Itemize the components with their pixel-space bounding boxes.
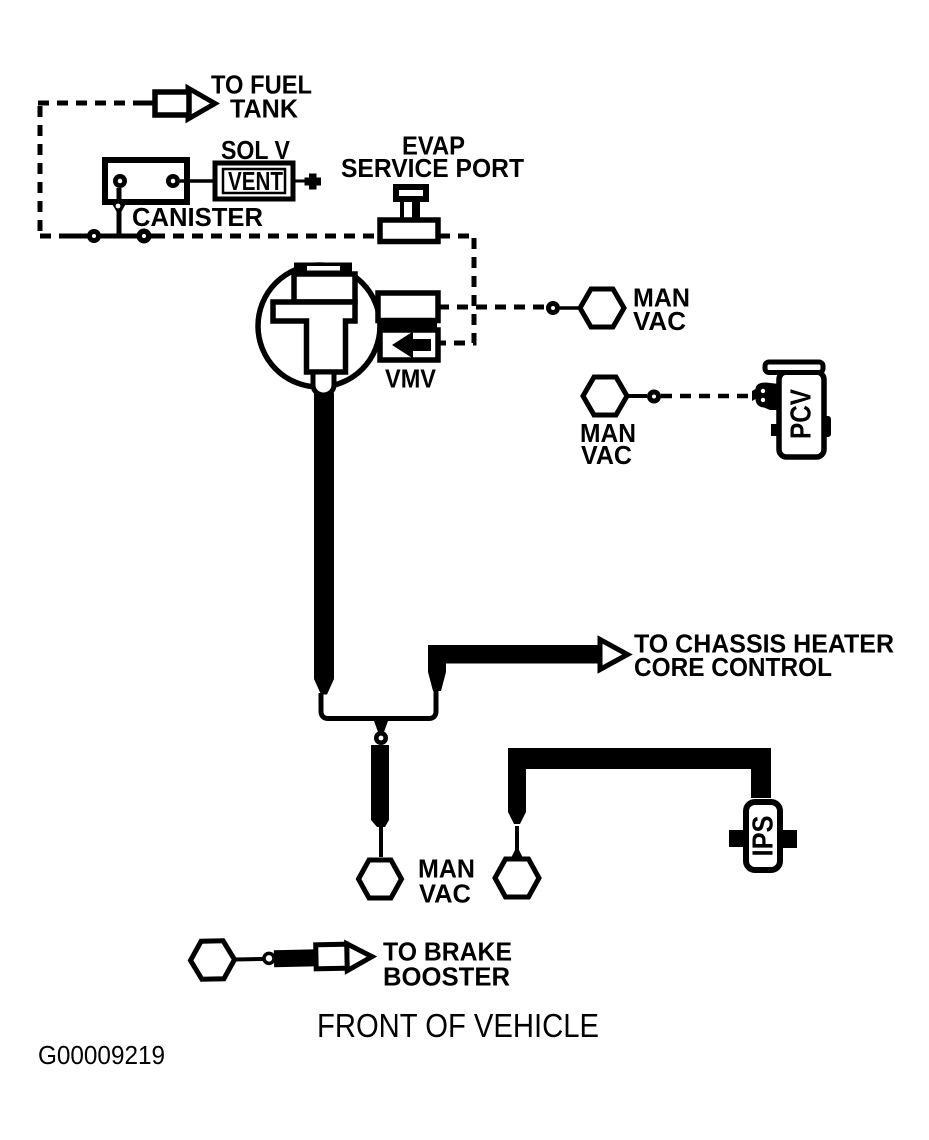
svg-text:SERVICE PORT: SERVICE PORT (341, 155, 524, 183)
label MAN VAC 2 (580, 420, 636, 470)
svg-text:BOOSTER: BOOSTER (383, 964, 510, 992)
hose thick short to lower MAN VAC (371, 745, 389, 857)
wire left vertical dashed vent line (38, 106, 43, 236)
svg-text:TO BRAKE: TO BRAKE (383, 939, 512, 967)
connector capped vent port (293, 174, 321, 190)
EVAP service port (380, 187, 438, 242)
svg-text:VAC: VAC (581, 442, 632, 470)
svg-text:VAC: VAC (633, 308, 686, 336)
label EVAP SERVICE PORT (341, 132, 524, 183)
connector to fuel tank (155, 88, 215, 119)
wire solid segment on canister line (70, 234, 164, 239)
node small ring (264, 953, 274, 963)
svg-text:SOL V: SOL V (221, 137, 290, 165)
wire thin connector line joining hoses (321, 690, 436, 719)
svg-text:CORE CONTROL: CORE CONTROL (634, 654, 832, 682)
port MAN VAC hexagon 2 (PCV line) (583, 377, 647, 415)
label TO FUEL TANK (211, 71, 312, 123)
node tee nipple to lower MAN VAC (374, 721, 388, 745)
svg-text:CANISTER: CANISTER (132, 204, 263, 232)
svg-text:FRONT OF VEHICLE: FRONT OF VEHICLE (317, 1007, 599, 1044)
port MAN VAC hexagon middle (495, 859, 539, 897)
VMV vapor management valve (258, 263, 380, 396)
brake booster assembly (190, 938, 372, 980)
node connector on purge line right (137, 229, 152, 244)
svg-text:MAN: MAN (418, 855, 475, 883)
svg-text:G00009219: G00009219 (38, 1040, 165, 1070)
wire dashed vent hose to fuel tank (38, 101, 150, 106)
port MAN VAC hexagon 3 (359, 860, 402, 898)
label MAN VAC 1 (633, 284, 690, 336)
svg-text:TANK: TANK (230, 95, 299, 123)
IPS sensor (729, 802, 797, 870)
label TO BRAKE BOOSTER (383, 939, 512, 992)
hose thick to chassis heater core (428, 645, 600, 691)
node connector on purge line left (87, 229, 101, 243)
wire canister to vent solenoid (180, 179, 215, 183)
wire thin drop to MAN VAC hexagon 2 (511, 826, 523, 858)
port hexagon brake (190, 941, 235, 980)
connector arrow to chassis heater (600, 640, 628, 670)
wire dashed line VMV upper port to MAN VAC (438, 305, 546, 310)
hose thick from VMV down (314, 393, 334, 695)
wire dashed line from EVAP port corner down to VMV lower port (440, 238, 474, 343)
wire bottom dashed canister purge line (40, 234, 474, 239)
wire canister drop line with check valve arrow (110, 188, 128, 236)
hose thick U-shape to IPS (508, 748, 771, 824)
hose thick segment (274, 949, 324, 967)
svg-text:IPS: IPS (748, 816, 780, 857)
svg-text:PCV: PCV (786, 388, 818, 439)
label MAN VAC 3 (418, 855, 475, 908)
svg-text:VAC: VAC (419, 880, 471, 908)
port MAN VAC hexagon 1 (580, 289, 624, 327)
canister C (105, 160, 187, 202)
vent solenoid SOL V (215, 163, 293, 199)
connector to brake booster (347, 943, 373, 971)
label TO CHASSIS HEATER CORE CONTROL (634, 631, 894, 683)
wire line from hexagon (234, 957, 266, 962)
node connector before MAN VAC 1 (546, 301, 581, 315)
node connector on PCV line (647, 390, 661, 404)
VMV side ports block (378, 293, 438, 360)
svg-text:VMV: VMV (385, 365, 436, 393)
svg-text:VENT: VENT (228, 168, 283, 196)
PCV valve (752, 362, 831, 457)
wire dashed line to PCV (661, 394, 750, 399)
